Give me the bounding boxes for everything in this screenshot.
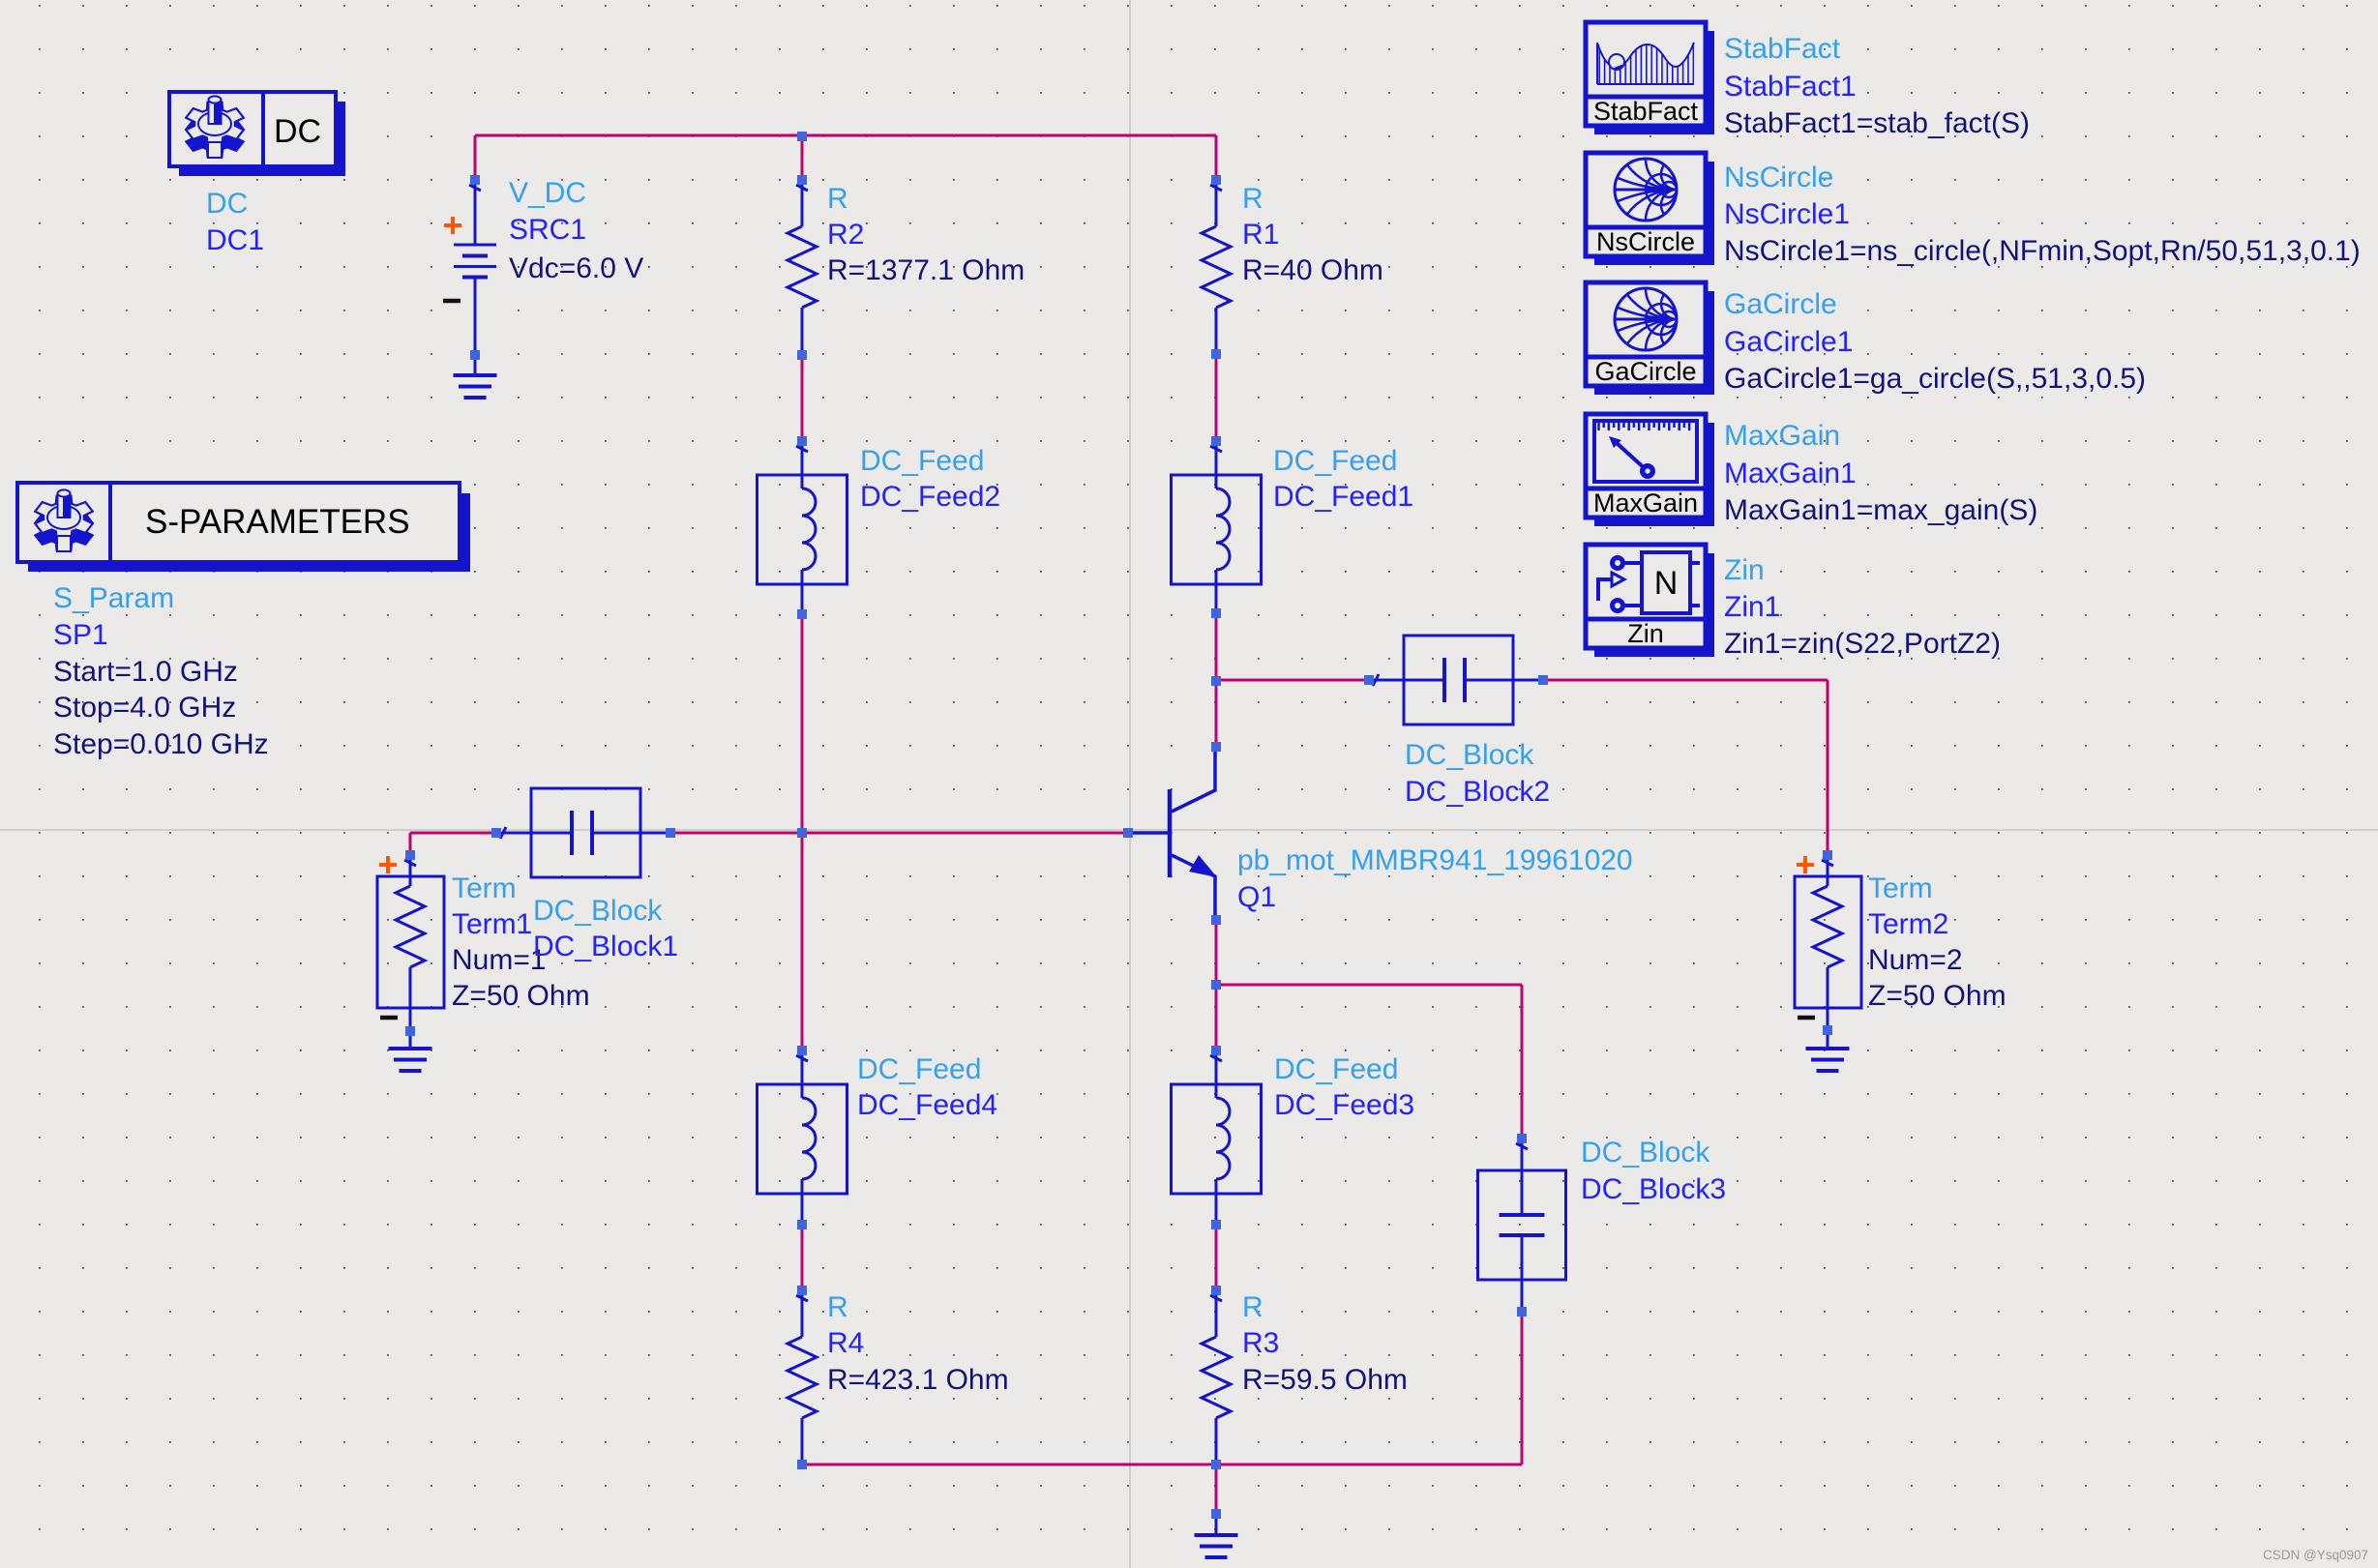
svg-text:GaCircle: GaCircle [1724,288,1837,320]
svg-text:DC_Block: DC_Block [1405,739,1534,771]
svg-text:StabFact1: StabFact1 [1724,71,1857,103]
svg-text:R=40 Ohm: R=40 Ohm [1242,254,1383,286]
minus sign of SRC1 [443,299,461,304]
voltage source SRC1 (V_DC) [454,180,496,375]
resistor R3 [1202,1290,1231,1464]
wire emitter to DC_Block3 horizontal [1216,984,1522,987]
node supply/R2 junction [797,132,807,141]
node R4 pin1 [797,1286,807,1295]
svg-text:DC_Feed4: DC_Feed4 [857,1089,997,1121]
svg-text:DC_Block: DC_Block [533,895,663,927]
svg-text:R: R [827,1291,848,1323]
icon GaCircle smith chart [1615,288,1677,350]
svg-text:R2: R2 [827,219,864,251]
node R3 pin2 / bottom bus [1211,1460,1221,1469]
capacitor DC_Block3 (DC_Block, vertical) [1478,1139,1566,1312]
ground below R3 (emitter bias) [1195,1535,1238,1557]
svg-text:R=1377.1 Ohm: R=1377.1 Ohm [827,254,1025,286]
svg-text:DC_Block: DC_Block [1581,1137,1710,1169]
svg-text:DC_Block2: DC_Block2 [1405,776,1550,808]
icon Zin two-port [1598,552,1700,613]
wire left column DC_Feed2 to DC_Feed4 [801,614,804,1050]
node SRC1 - [470,350,480,360]
svg-text:DC_Feed2: DC_Feed2 [860,481,1000,513]
svg-text:Term: Term [452,873,517,904]
svg-text:Q1: Q1 [1237,881,1276,913]
wire DC_Block3 bottom drop [1521,1312,1524,1464]
plus sign of SRC1 [444,217,461,234]
wire collector to DC_Block2 [1216,679,1369,682]
ground below Term2 [1806,1049,1850,1071]
node DC_Block2 pin2 [1538,675,1548,685]
node Term2 pin1 [1823,850,1832,860]
svg-text:Z=50 Ohm: Z=50 Ohm [452,980,590,1012]
node Q1 emitter [1211,915,1221,925]
svg-text:N: N [1654,565,1679,602]
node DC_Feed2 pin1 [797,436,807,446]
svg-text:NsCircle: NsCircle [1724,162,1833,193]
node DC_Feed4 pin2 [797,1220,807,1229]
svg-text:Num=1: Num=1 [452,944,547,976]
node DC_Block1 pin1 [491,828,501,838]
svg-text:CSDN @Ysq0907: CSDN @Ysq0907 [2263,1548,2368,1562]
node DC_Block2 pin1 [1364,675,1374,685]
svg-text:DC_Block1: DC_Block1 [533,931,678,962]
node R2 pin1 [797,175,807,185]
node Q1 collector [1211,742,1221,752]
svg-text:Z=50 Ohm: Z=50 Ohm [1868,980,2006,1012]
node DC_Feed1 pin2 [1211,608,1221,618]
node R4 pin2 [797,1460,807,1469]
wire Term1 ground stem [409,1031,412,1049]
node DC_Feed3 pin2 [1211,1220,1221,1229]
svg-text:Term2: Term2 [1868,908,1948,940]
wire R2 to DC_Feed2 [801,355,804,441]
svg-text:DC_Block3: DC_Block3 [1581,1173,1726,1205]
transistor Q1 (pb_mot_MMBR941_19961020 BJT) [1129,747,1217,920]
node DC_Block1 pin2 [666,828,675,838]
wire Term1 to DC_Block1 [410,832,496,835]
wire DC_Block1 to base [670,832,1128,835]
measurement block StabFact1 frame [1586,22,1714,134]
wire R2 top stub [801,135,804,180]
node Term2 pin2 [1823,1025,1832,1035]
wire emitter column [1215,920,1218,1050]
svg-text:R3: R3 [1242,1327,1279,1359]
svg-text:R=423.1 Ohm: R=423.1 Ohm [827,1364,1009,1396]
svg-text:StabFact: StabFact [1593,97,1699,126]
svg-text:Term1: Term1 [452,908,532,940]
node DC_Block3 pin1 [1517,1134,1527,1143]
svg-text:R4: R4 [827,1327,864,1359]
svg-text:SP1: SP1 [53,619,108,651]
inductor DC_Feed2 (DC_Feed) [758,441,847,613]
svg-text:R: R [1242,183,1263,215]
svg-text:Start=1.0 GHz: Start=1.0 GHz [53,656,238,688]
svg-text:MaxGain: MaxGain [1593,488,1698,518]
svg-text:Step=0.010 GHz: Step=0.010 GHz [53,728,269,760]
measurement block GaCircle1 frame [1586,282,1714,395]
capacitor DC_Block1 (DC_Block, horizontal) [496,788,670,877]
resistor R2 [788,180,817,355]
simulation controller block DC [169,92,345,176]
minus sign of Term1 [380,1016,398,1021]
node DC_Feed3 pin1 [1211,1046,1221,1055]
capacitor DC_Block2 (DC_Block, horizontal) [1369,636,1543,725]
resistor R1 [1202,180,1231,354]
node DC_Feed1 pin1 [1211,436,1221,446]
plus sign of Term1 [379,856,397,873]
svg-text:GaCircle1: GaCircle1 [1724,326,1853,358]
plus sign of Term2 [1797,856,1814,873]
svg-text:DC_Feed: DC_Feed [1274,1053,1398,1085]
node SRC1 + [470,175,480,185]
svg-text:MaxGain1=max_gain(S): MaxGain1=max_gain(S) [1724,494,2037,526]
gear icon of DC block [186,96,244,158]
inductor DC_Feed4 (DC_Feed) [758,1050,847,1223]
svg-text:Num=2: Num=2 [1868,944,1963,976]
inductor DC_Feed3 (DC_Feed) [1172,1050,1262,1223]
icon NsCircle smith chart [1615,159,1677,221]
wire V_DC riser [474,135,477,180]
minus sign of Term2 [1798,1016,1815,1021]
svg-text:DC: DC [206,188,248,220]
svg-text:DC_Feed1: DC_Feed1 [1273,481,1413,513]
svg-text:V_DC: V_DC [509,177,586,209]
port Term2 (Term) [1795,855,1861,1031]
simulation controller block S-PARAMETERS [17,483,470,572]
svg-text:R: R [1242,1291,1263,1323]
node R3 pin1 [1211,1286,1221,1295]
svg-text:StabFact: StabFact [1724,33,1841,65]
node Q1 base [1123,828,1133,838]
node DC_Feed2 pin2 [797,609,807,619]
wire R1 to DC_Feed1 [1215,354,1218,441]
svg-text:DC_Feed: DC_Feed [860,445,984,477]
svg-text:DC_Feed: DC_Feed [1273,445,1397,477]
node emitter junction [1211,980,1221,990]
wire top supply bus [475,134,1216,137]
page boundary vertical line [1129,0,1131,1568]
node Term1 pin1 [405,850,415,860]
svg-text:GaCircle1=ga_circle(S,,51,3,0.: GaCircle1=ga_circle(S,,51,3,0.5) [1724,363,2146,395]
wire DC_Block3 top drop [1521,985,1524,1139]
wire Term2 drop [1827,680,1829,855]
resistor R4 [788,1290,817,1464]
svg-text:SRC1: SRC1 [509,214,586,246]
svg-text:GaCircle: GaCircle [1594,357,1696,386]
icon StabFact waveform [1597,43,1694,84]
node DC_Block3 pin2 [1517,1307,1527,1317]
svg-text:R=59.5 Ohm: R=59.5 Ohm [1242,1364,1408,1396]
node base bias junction [797,828,807,838]
measurement block NsCircle1 frame [1586,153,1714,265]
wire bottom bus [802,1464,1522,1466]
wire R3 to ground stub [1215,1464,1218,1514]
node Term1 pin2 [405,1026,415,1036]
port Term1 (Term) [377,855,444,1031]
node R1 pin1 [1211,175,1221,185]
svg-text:NsCircle1: NsCircle1 [1724,198,1850,230]
node collector junction [1211,676,1221,686]
svg-text:DC_Feed: DC_Feed [857,1053,981,1085]
wire DC_Feed3 to R3 [1215,1225,1218,1290]
svg-text:DC1: DC1 [206,224,264,256]
wire DC_Feed4 to R4 [801,1225,804,1290]
ground below SRC1 [454,375,497,398]
svg-text:StabFact1=stab_fact(S): StabFact1=stab_fact(S) [1724,107,2030,139]
svg-text:Zin1=zin(S22,PortZ2): Zin1=zin(S22,PortZ2) [1724,628,2001,660]
measurement block MaxGain1 frame [1586,414,1714,526]
node DC_Feed4 pin1 [797,1046,807,1055]
svg-text:MaxGain: MaxGain [1724,420,1840,452]
wire Term1 riser [409,833,412,855]
svg-text:S_Param: S_Param [53,582,174,614]
svg-text:R1: R1 [1242,219,1279,251]
svg-text:pb_mot_MMBR941_19961020: pb_mot_MMBR941_19961020 [1237,844,1633,876]
svg-text:Zin: Zin [1724,554,1765,586]
svg-text:R: R [827,183,848,215]
wire R3 ground stem [1215,1514,1218,1535]
svg-text:Zin1: Zin1 [1724,591,1780,623]
gear icon of S-PARAMETERS block [35,489,93,551]
svg-text:Vdc=6.0 V: Vdc=6.0 V [509,252,643,284]
inductor DC_Feed1 (DC_Feed) [1172,441,1262,613]
icon MaxGain meter [1594,421,1697,482]
svg-text:Term: Term [1868,873,1933,904]
ground below Term1 [389,1049,432,1071]
svg-text:NsCircle1=ns_circle(,NFmin,Sop: NsCircle1=ns_circle(,NFmin,Sopt,Rn/50,51… [1724,235,2361,267]
node R1 pin2 [1211,349,1221,359]
node ground stub [1211,1509,1221,1519]
svg-text:DC_Feed3: DC_Feed3 [1274,1089,1414,1121]
svg-text:S-PARAMETERS: S-PARAMETERS [145,503,410,541]
page boundary horizontal line [0,829,2378,831]
wire DC_Block2 to Term2 horizontal [1543,679,1828,682]
svg-text:Stop=4.0 GHz: Stop=4.0 GHz [53,692,236,724]
svg-text:MaxGain1: MaxGain1 [1724,458,1857,489]
svg-text:Zin: Zin [1627,619,1664,648]
wire Term2 ground stem [1827,1030,1829,1049]
wire R1 top stub [1215,135,1218,180]
measurement block Zin1 frame [1586,545,1714,657]
wire collector column [1215,613,1218,747]
node R2 pin2 [797,350,807,360]
svg-text:NsCircle: NsCircle [1596,227,1695,256]
svg-text:DC: DC [274,113,321,150]
